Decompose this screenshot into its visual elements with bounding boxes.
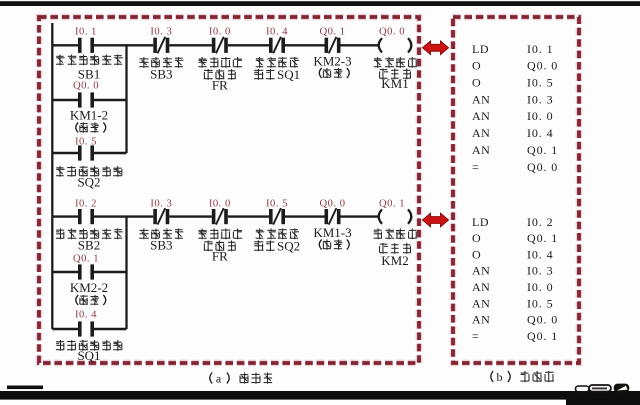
svg-text:KM1: KM1 <box>381 76 408 91</box>
svg-text:Q0. 1: Q0. 1 <box>379 199 405 210</box>
svg-text:SB3: SB3 <box>150 67 172 82</box>
svg-text:O: O <box>472 231 481 245</box>
svg-text:FR: FR <box>212 249 228 264</box>
svg-text:KM1-2: KM1-2 <box>70 108 108 123</box>
svg-text:KM2-2: KM2-2 <box>70 280 108 295</box>
svg-text:LD: LD <box>472 42 489 56</box>
svg-text:I0. 5: I0. 5 <box>527 296 554 310</box>
svg-text:I0. 0: I0. 0 <box>209 27 231 38</box>
svg-text:SQ1: SQ1 <box>277 67 300 82</box>
svg-text:Q0. 0: Q0. 0 <box>319 199 345 210</box>
svg-text:I0. 3: I0. 3 <box>527 264 554 278</box>
svg-text:KM2-3: KM2-3 <box>313 54 351 69</box>
svg-text:AN: AN <box>472 126 490 140</box>
svg-text:O: O <box>472 247 481 261</box>
svg-text:Q0. 1: Q0. 1 <box>527 231 558 245</box>
svg-text:I0. 3: I0. 3 <box>150 199 172 210</box>
svg-text:I0. 4: I0. 4 <box>266 27 288 38</box>
svg-text:I0. 5: I0. 5 <box>75 137 97 148</box>
svg-text:I0. 0: I0. 0 <box>527 280 554 294</box>
svg-text:SQ1: SQ1 <box>77 348 100 363</box>
svg-text:AN: AN <box>472 296 490 310</box>
svg-text:I0. 3: I0. 3 <box>527 92 554 106</box>
svg-text:Q0. 0: Q0. 0 <box>527 59 558 73</box>
svg-text:SB1: SB1 <box>78 67 100 82</box>
svg-text:I0. 5: I0. 5 <box>266 199 288 210</box>
svg-text:AN: AN <box>472 143 490 157</box>
svg-text:O: O <box>472 59 481 73</box>
svg-text:AN: AN <box>472 264 490 278</box>
svg-text:LD: LD <box>472 215 489 229</box>
svg-text:Q0. 0: Q0. 0 <box>73 81 99 92</box>
svg-text:AN: AN <box>472 280 490 294</box>
svg-text:FR: FR <box>212 78 228 93</box>
svg-text:=: = <box>472 329 479 343</box>
svg-text:AN: AN <box>472 313 490 327</box>
svg-text:I0. 5: I0. 5 <box>527 76 554 90</box>
svg-text:AN: AN <box>472 109 490 123</box>
svg-text:KM2: KM2 <box>381 253 408 268</box>
svg-text:SB2: SB2 <box>78 238 100 253</box>
svg-text:Q0. 0: Q0. 0 <box>527 160 558 174</box>
svg-text:I0. 0: I0. 0 <box>527 109 554 123</box>
svg-text:b: b <box>497 370 503 384</box>
svg-text:I0. 0: I0. 0 <box>209 199 231 210</box>
svg-text:SQ2: SQ2 <box>277 239 300 254</box>
svg-text:Q0. 1: Q0. 1 <box>319 27 345 38</box>
svg-text:I0. 1: I0. 1 <box>75 27 97 38</box>
svg-text:Q0. 0: Q0. 0 <box>527 313 558 327</box>
svg-text:SB3: SB3 <box>150 238 172 253</box>
svg-text:=: = <box>472 160 479 174</box>
svg-text:a: a <box>216 372 222 386</box>
svg-text:O: O <box>472 76 481 90</box>
svg-text:Q0. 1: Q0. 1 <box>527 143 558 157</box>
svg-text:I0. 2: I0. 2 <box>75 199 97 210</box>
svg-text:SQ2: SQ2 <box>77 175 100 190</box>
svg-text:I0. 3: I0. 3 <box>150 27 172 38</box>
svg-text:Q0. 1: Q0. 1 <box>73 254 99 265</box>
svg-text:Q0. 0: Q0. 0 <box>379 27 405 38</box>
svg-text:I0. 4: I0. 4 <box>75 310 97 321</box>
svg-text:AN: AN <box>472 92 490 106</box>
svg-text:I0. 2: I0. 2 <box>527 215 554 229</box>
svg-text:Q0. 1: Q0. 1 <box>527 329 558 343</box>
svg-text:I0. 4: I0. 4 <box>527 247 554 261</box>
svg-text:KM1-3: KM1-3 <box>313 225 351 240</box>
svg-text:I0. 1: I0. 1 <box>527 42 554 56</box>
svg-text:I0. 4: I0. 4 <box>527 126 554 140</box>
